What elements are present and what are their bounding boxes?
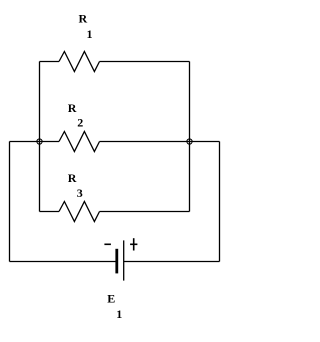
polarity minus sign — [104, 243, 111, 245]
label R1 — [79, 12, 93, 41]
wire: left inner vertical (R1 left lead to R3 left lead) — [39, 62, 41, 212]
wire: R1 right lead — [100, 61, 190, 63]
svg-text:E: E — [107, 291, 115, 305]
wire: bottom right from battery positive plate — [124, 261, 220, 263]
svg-text:R: R — [68, 101, 77, 115]
wire: right inner vertical (R1 right lead to R3 right lead) — [189, 62, 191, 212]
wire: bottom left to battery negative plate — [10, 261, 117, 263]
wire: left outer vertical down to battery — [9, 142, 11, 262]
wire: R3 right lead — [100, 211, 190, 213]
node B (right junction) — [187, 139, 192, 144]
label R2 — [68, 101, 84, 129]
label E1 — [107, 291, 122, 321]
battery E1 negative plate (short thick) — [115, 249, 118, 274]
wire: R2 right lead to right outer branch — [100, 141, 220, 143]
node A (left junction) — [37, 139, 42, 144]
resistor R2 — [59, 132, 100, 152]
svg-text:R: R — [79, 12, 88, 26]
svg-text:R: R — [68, 171, 77, 185]
svg-text:2: 2 — [77, 116, 83, 130]
resistor R1 — [59, 52, 100, 72]
wire: R3 left lead — [40, 211, 60, 213]
wire: R1 left lead — [40, 61, 60, 63]
label R3 — [68, 171, 83, 200]
svg-text:1: 1 — [116, 307, 122, 321]
battery E1 positive plate (long thin) — [123, 240, 125, 280]
wire: right outer vertical down to battery — [219, 142, 221, 262]
polarity plus sign — [130, 238, 137, 250]
svg-text:3: 3 — [77, 186, 83, 200]
resistor R3 — [59, 202, 100, 222]
wire: R2 left lead from left outer branch — [10, 141, 60, 143]
svg-text:1: 1 — [87, 27, 93, 41]
